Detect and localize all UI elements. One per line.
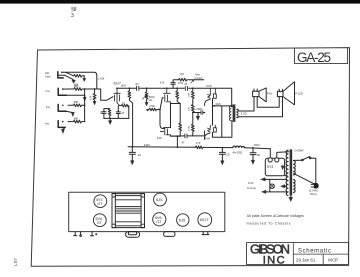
wire secondary top [238, 97, 254, 111]
svg-text:P10: P10 [267, 91, 273, 95]
wire J1 tip line [61, 72, 97, 90]
svg-text:5Y3: 5Y3 [267, 165, 274, 169]
svg-text:6V6: 6V6 [205, 137, 211, 141]
transformer T2 heater secondary [294, 180, 296, 193]
wire cathode bottom [104, 117, 129, 119]
heater tap arrow [281, 185, 287, 188]
svg-text:180V: 180V [121, 85, 127, 88]
svg-text:1K: 1K [122, 102, 125, 105]
socket 6J5 bottom [177, 214, 189, 226]
svg-text:Gain: Gain [45, 75, 51, 79]
ground under J1 sleeve [65, 75, 76, 83]
tube V4 6V6 upper [204, 88, 216, 105]
jack J4 [58, 121, 65, 128]
tube V3 6J5 lower [162, 128, 171, 137]
wire input bus vertical [84, 88, 86, 122]
rectifier V6 5Y3 [265, 158, 284, 176]
capacitor C4 coupling .1 [185, 86, 187, 90]
chassis foot 4 [202, 232, 209, 235]
socket 6V6GT left [93, 214, 106, 227]
wire lower coupling line [171, 131, 205, 136]
transformer T1 primary [230, 106, 232, 121]
tone control network above rail [171, 78, 204, 88]
svg-text:4H-25Ω: 4H-25Ω [232, 150, 242, 154]
svg-text:68K: 68K [74, 100, 79, 104]
transformer T2 core [290, 150, 292, 195]
ground bias [196, 113, 199, 121]
capacitor C6 coupling .47 [185, 134, 187, 138]
svg-text:Vol.: Vol. [149, 99, 153, 102]
wire inverter vertical [179, 104, 181, 124]
node rail left [132, 146, 134, 148]
wire V4 plate to OT [213, 99, 231, 126]
svg-text:340V: 340V [144, 143, 150, 147]
jack J3 [58, 104, 66, 111]
chassis foot 2 [80, 232, 82, 237]
resistor R15 47K dropping [195, 146, 203, 149]
wire V2 cathode [171, 103, 181, 105]
capacitor C5 25MF bias [201, 111, 203, 115]
svg-text:117VAC: 117VAC [309, 188, 319, 192]
wire speaker link [257, 97, 279, 108]
tube V1 6SJ7 [114, 88, 120, 105]
svg-text:6J5: 6J5 [160, 80, 165, 84]
title block divider vertical [292, 243, 294, 265]
title block outer box [247, 243, 349, 265]
wire divider junction [192, 112, 205, 114]
resistor R14 tail [179, 123, 182, 136]
svg-text:68K: 68K [74, 117, 79, 121]
svg-text:Mic: Mic [45, 71, 50, 75]
socket 6SJ7 [198, 213, 212, 227]
node tail junction [177, 146, 179, 148]
svg-text:Inst: Inst [46, 89, 50, 93]
wire grid into V1 [97, 89, 113, 100]
svg-text:GT: GT [97, 221, 103, 225]
wire screen vertical [221, 106, 223, 137]
lamp PL1 [270, 179, 275, 192]
svg-text:.47: .47 [181, 140, 185, 144]
resistor R2 68K [69, 88, 86, 91]
svg-text:.05: .05 [184, 83, 188, 86]
svg-text:470K: 470K [149, 104, 155, 108]
scanner top black bar [0, 0, 360, 4]
svg-text:29 Jan 61: 29 Jan 61 [296, 258, 316, 263]
wire plate 2 to HV winding [277, 152, 289, 158]
resistor R8 plate load [128, 87, 133, 103]
wire secondary bottom [238, 97, 283, 118]
resistor R9 470K to V2 grid [146, 98, 162, 111]
svg-text:Inst: Inst [45, 122, 49, 126]
chassis box [69, 192, 225, 231]
transformer T2 HV secondary [294, 161, 296, 175]
chassis foot 1 [74, 232, 77, 236]
resistor R13 divider bottom [191, 113, 194, 136]
node OT top [231, 105, 233, 107]
jack J1 [58, 72, 65, 78]
svg-text:10: 10 [138, 153, 142, 157]
potentiometer tone control [143, 87, 149, 105]
svg-text:6V6: 6V6 [206, 84, 212, 88]
ground J2 sleeve [67, 95, 87, 101]
svg-text:measured To Chassis: measured To Chassis [247, 222, 291, 226]
resistor R12 divider lower [191, 101, 194, 112]
wire B+ to rectifier [269, 149, 271, 158]
resistor R5 68K [68, 120, 85, 123]
svg-text:GT: GT [97, 202, 103, 206]
wire tail to rail [171, 135, 181, 147]
svg-text:60cyc: 60cyc [310, 192, 318, 196]
capacitor C3 coupling .02 [137, 86, 139, 90]
ground under J4 [62, 127, 66, 133]
svg-text:360V: 360V [254, 143, 260, 147]
socket 6V6GT right [153, 213, 166, 226]
svg-text:GT: GT [156, 220, 162, 224]
resistor R7 screen [108, 109, 111, 119]
cord grommet [126, 232, 140, 238]
tube V5 6V6 lower [204, 125, 216, 139]
wire AC diagonal [294, 173, 314, 183]
resistor R10 inverter [176, 87, 180, 103]
svg-text:GA-25: GA-25 [297, 50, 331, 65]
wire grid bus horizontal [86, 88, 101, 90]
tube V2 6J5 upper [162, 88, 171, 103]
svg-text:C=25MF: C=25MF [294, 150, 304, 153]
svg-text:20: 20 [226, 153, 230, 157]
svg-text:3: 3 [71, 13, 74, 19]
svg-text:6J5: 6J5 [156, 197, 163, 202]
jack J2 [58, 88, 68, 95]
sheet border frame [31, 48, 349, 267]
transformer T1 core [233, 105, 235, 122]
svg-text:L.SW: L.SW [98, 76, 105, 80]
svg-text:6.3V: 6.3V [248, 181, 254, 185]
capacitor C1 screen bypass [102, 109, 110, 119]
title block divider vertical 2 [322, 254, 324, 264]
speaker SP2 [277, 82, 294, 105]
svg-text:Schematic: Schematic [298, 248, 331, 254]
wire rectifier to transformer [285, 175, 288, 177]
resistor R3 1M grid leak [93, 88, 96, 105]
svg-text:470K: 470K [189, 125, 191, 131]
wire heater top [261, 178, 287, 181]
switch S1 [294, 157, 316, 184]
svg-text:P12S: P12S [295, 91, 302, 95]
wire B+ rail [128, 147, 270, 149]
capacitor C2 cathode bypass 25MF [116, 106, 120, 119]
plug P1 [311, 183, 318, 189]
svg-text:30: 30 [257, 153, 261, 157]
svg-text:LS7: LS7 [13, 258, 18, 266]
speaker SP1 [253, 88, 267, 102]
ground stage1 [109, 118, 112, 124]
svg-text:68K: 68K [74, 84, 79, 88]
ground transformer [289, 195, 293, 201]
V1 cathode resistor R6 [120, 104, 129, 118]
svg-text:6SJ7: 6SJ7 [200, 218, 209, 222]
wire B+ drop to OT [231, 88, 233, 106]
chassis oval 2 [164, 232, 175, 237]
wire V5 plate to OT [213, 121, 232, 138]
capacitor C7 10MF [129, 147, 135, 165]
svg-text:470K: 470K [178, 82, 184, 85]
choke L1 [233, 146, 245, 148]
resistor R4 68K [68, 104, 85, 107]
resistor R1 68K tap [66, 72, 86, 81]
wire B+ feed stage1 [132, 103, 134, 147]
node 360V [252, 147, 254, 149]
resistor R11 divider upper [191, 87, 194, 101]
capacitor C9 30MF [250, 148, 256, 164]
ground under J3 [66, 111, 74, 116]
svg-text:All plate,Screen &Cathode Volt: All plate,Screen &Cathode Voltages [247, 214, 304, 218]
wire V2 cathode to V3 plate [170, 104, 172, 128]
svg-text:.02: .02 [135, 82, 139, 86]
socket 6J5 top [154, 193, 167, 206]
node plate V1 [116, 87, 118, 89]
transformer T1 secondary [237, 109, 238, 117]
wire heater bottom [262, 190, 287, 193]
GA-25 title box [295, 48, 348, 64]
wire V3 grid [160, 110, 165, 132]
svg-text:6J5: 6J5 [157, 136, 162, 140]
svg-text:47K: 47K [196, 141, 201, 145]
svg-text:MCP: MCP [328, 258, 338, 263]
capacitor C8 20MF [219, 147, 225, 165]
svg-text:+25MF: +25MF [195, 108, 203, 111]
node V2 plate [166, 87, 168, 89]
power transformer chassis [112, 194, 145, 228]
svg-text:2M: 2M [180, 73, 183, 76]
transformer T2 primary winding [286, 150, 288, 195]
socket 5Y3GT [94, 195, 107, 208]
svg-text:25: 25 [121, 112, 124, 115]
title block divider horizontal [293, 253, 348, 255]
svg-text:Control: Control [194, 77, 203, 80]
svg-text:1M: 1M [89, 96, 93, 100]
svg-text:6J5: 6J5 [179, 218, 186, 223]
svg-text:To Amp: To Amp [247, 186, 256, 190]
svg-text:22K: 22K [189, 107, 191, 111]
svg-text:3.2Ω: 3.2Ω [241, 112, 247, 116]
svg-text:220K: 220K [188, 92, 190, 98]
svg-text:Inst: Inst [46, 105, 50, 109]
wire top rail [117, 87, 232, 89]
svg-text:320V: 320V [215, 103, 221, 106]
chassis foot 3 [90, 232, 97, 236]
